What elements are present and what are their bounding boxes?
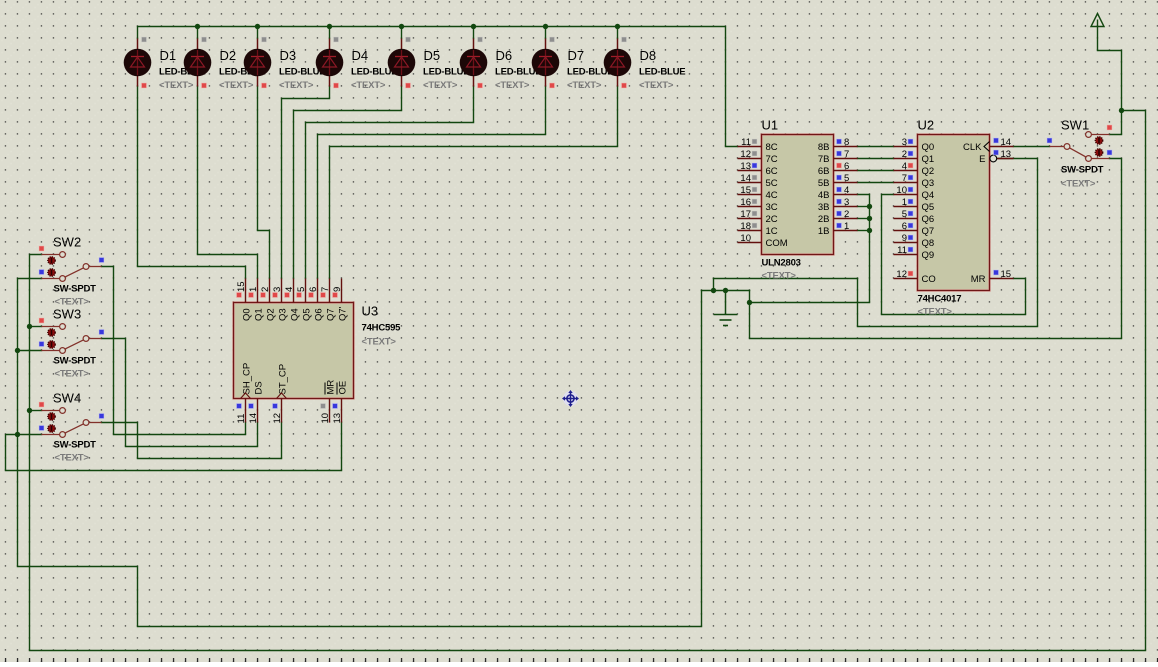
SW4 contacts bbox=[60, 408, 66, 414]
svg-text:Q9: Q9 bbox=[922, 250, 935, 261]
svg-text:SW-SPDT: SW-SPDT bbox=[54, 356, 97, 367]
U3 pin 15 (Q0) top bbox=[236, 279, 252, 322]
svg-text:D6: D6 bbox=[496, 48, 513, 63]
wire: U1 4B down ground bus bbox=[750, 195, 870, 303]
svg-text:LED-BLUE: LED-BLUE bbox=[639, 67, 685, 78]
svg-text:10: 10 bbox=[896, 185, 907, 196]
svg-text:D2: D2 bbox=[220, 48, 237, 63]
wire: D7 to U3 Q6 (pin 6) bbox=[318, 87, 546, 279]
pin marker D6 cathode bbox=[478, 83, 483, 88]
junction: SW3 throw A bbox=[27, 324, 32, 329]
U3 pin 3 (Q3) top bbox=[272, 279, 288, 322]
svg-text:<TEXT>: <TEXT> bbox=[219, 80, 254, 91]
wire: rail tap to D4 bbox=[329, 27, 331, 39]
pin marker D1 cathode bbox=[142, 83, 147, 88]
svg-text:ULN2803: ULN2803 bbox=[762, 258, 801, 269]
SW1 contacts bbox=[1064, 144, 1070, 150]
pin marker D6 anode bbox=[478, 37, 483, 42]
SW2 knobs bbox=[48, 257, 55, 264]
svg-text:1: 1 bbox=[844, 221, 849, 232]
junction: rail at D7 bbox=[543, 24, 548, 29]
svg-text:Q4: Q4 bbox=[289, 308, 300, 321]
LED D3 bbox=[244, 37, 326, 91]
junction: ground bus tap bbox=[747, 300, 752, 305]
SW3 lever bbox=[65, 340, 84, 349]
svg-text:Q5: Q5 bbox=[922, 202, 935, 213]
svg-text:D5: D5 bbox=[424, 48, 441, 63]
svg-text:17: 17 bbox=[740, 209, 751, 220]
U1 pin 5 (5B) bbox=[818, 173, 858, 189]
U1 pin 3 (3B) bbox=[818, 197, 858, 213]
svg-text:D7: D7 bbox=[568, 48, 585, 63]
svg-text:5: 5 bbox=[296, 287, 307, 292]
switch SW2 SW-SPDT bbox=[39, 235, 104, 308]
U1 pin 6 (6B) bbox=[818, 161, 858, 177]
SW1 lever bbox=[1070, 148, 1087, 157]
svg-text:<TEXT>: <TEXT> bbox=[362, 337, 397, 348]
svg-text:6C: 6C bbox=[766, 166, 778, 177]
svg-text:D3: D3 bbox=[280, 48, 297, 63]
U3 pin 10 (MR) bottom bbox=[320, 380, 337, 424]
wire: SW2 pole to U3 SH_CP (pin 11) bbox=[102, 267, 246, 435]
wire: SW4 throw A stub bbox=[30, 410, 42, 412]
svg-text:10: 10 bbox=[740, 233, 751, 244]
SW3 knobs bbox=[48, 329, 55, 336]
wire: U1 8B-Q0 to U2 bbox=[858, 146, 894, 148]
svg-text:MR: MR bbox=[326, 380, 337, 395]
svg-text:<TEXT>: <TEXT> bbox=[351, 80, 386, 91]
U2 pin 9 (Q8) bbox=[894, 233, 935, 249]
pin marker D4 cathode bbox=[334, 83, 339, 88]
junction: ground row left bbox=[711, 288, 716, 293]
svg-text:<TEXT>: <TEXT> bbox=[55, 453, 90, 464]
svg-text:Q1: Q1 bbox=[922, 154, 935, 165]
svg-text:3: 3 bbox=[844, 197, 849, 208]
wire: SW4 throw B stub bbox=[18, 434, 42, 436]
LED D2 bbox=[184, 37, 266, 91]
SW3 pin markers bbox=[39, 318, 44, 323]
svg-text:DS: DS bbox=[254, 381, 265, 394]
junction: SW4 throw B bbox=[15, 432, 20, 437]
svg-text:7B: 7B bbox=[818, 154, 830, 165]
wire: U1 1B to bus bbox=[858, 230, 870, 232]
U3 pin 1 (Q1) top bbox=[248, 279, 264, 322]
svg-text:CLK: CLK bbox=[963, 142, 982, 153]
U3 pin 11 (SH_CP) bottom bbox=[236, 363, 253, 424]
U2 pin 4 (Q2) bbox=[894, 161, 935, 177]
wire: U1 6B-Q2 to U2 bbox=[858, 170, 894, 172]
svg-text:5B: 5B bbox=[818, 178, 830, 189]
SW3 contacts bbox=[60, 324, 66, 330]
svg-text:E: E bbox=[979, 154, 985, 165]
junction: rail at D8 bbox=[615, 24, 620, 29]
SW2 contacts bbox=[60, 252, 66, 258]
U1 pin 15 (4C) bbox=[738, 185, 778, 201]
svg-text:4B: 4B bbox=[818, 190, 830, 201]
svg-text:SW-SPDT: SW-SPDT bbox=[1061, 165, 1104, 176]
svg-text:SW4: SW4 bbox=[53, 391, 81, 406]
junction: rail at D2 bbox=[195, 24, 200, 29]
svg-text:<TEXT>: <TEXT> bbox=[495, 80, 530, 91]
LED D4 bbox=[316, 37, 398, 91]
pin marker D5 anode bbox=[406, 37, 411, 42]
svg-text:U3: U3 bbox=[362, 304, 379, 319]
svg-text:<TEXT>: <TEXT> bbox=[279, 80, 314, 91]
junction: SW4 throw A bbox=[27, 408, 32, 413]
svg-text:SW2: SW2 bbox=[53, 235, 81, 250]
svg-text:14: 14 bbox=[740, 173, 751, 184]
wire: rail tap to D2 bbox=[197, 27, 199, 39]
junction: 2B bus bbox=[867, 216, 872, 221]
svg-text:11: 11 bbox=[897, 245, 907, 256]
svg-text:7C: 7C bbox=[766, 154, 778, 165]
svg-text:5: 5 bbox=[902, 209, 907, 220]
wire: U1 3B to bus bbox=[858, 206, 870, 208]
U1 pin 12 (7C) bbox=[738, 149, 778, 165]
pin marker D3 anode bbox=[262, 37, 267, 42]
svg-text:Q1: Q1 bbox=[253, 308, 264, 321]
svg-text:74HC595: 74HC595 bbox=[362, 323, 402, 334]
wire: VCC loop to SW2/3/4 throw A bbox=[30, 111, 1146, 651]
svg-text:4: 4 bbox=[844, 185, 849, 196]
svg-text:18: 18 bbox=[740, 221, 751, 232]
U3 pin 12 (ST_CP) bottom bbox=[272, 364, 289, 424]
svg-text:13: 13 bbox=[332, 413, 343, 424]
junction: 1B bus bbox=[867, 228, 872, 233]
svg-text:D1: D1 bbox=[160, 48, 177, 63]
svg-text:MR: MR bbox=[971, 274, 986, 285]
wire: U1 7B-Q1 to U2 bbox=[858, 158, 894, 160]
wire: ground drop bbox=[713, 279, 715, 291]
U2 pin 11 (Q9) bbox=[894, 245, 935, 261]
svg-text:2: 2 bbox=[844, 209, 849, 220]
svg-text:14: 14 bbox=[248, 413, 259, 424]
pin marker D2 anode bbox=[202, 37, 207, 42]
svg-text:<TEXT>: <TEXT> bbox=[567, 80, 602, 91]
svg-text:8B: 8B bbox=[818, 142, 830, 153]
svg-text:1C: 1C bbox=[766, 226, 778, 237]
svg-text:74HC4017: 74HC4017 bbox=[918, 294, 962, 305]
svg-text:11: 11 bbox=[741, 137, 751, 148]
switch SW1 SW-SPDT bbox=[1047, 118, 1112, 190]
svg-text:15: 15 bbox=[236, 281, 247, 292]
wire: ground to SW1 throw B bbox=[750, 159, 1122, 339]
wire: U1 5B-Q3 to U2 bbox=[858, 182, 894, 184]
U3 pin 2 (Q2) top bbox=[260, 279, 276, 322]
svg-text:<TEXT>: <TEXT> bbox=[762, 271, 797, 282]
svg-text:SW-SPDT: SW-SPDT bbox=[54, 284, 97, 295]
svg-text:U2: U2 bbox=[918, 118, 935, 133]
svg-text:11: 11 bbox=[236, 414, 247, 424]
svg-text:2B: 2B bbox=[818, 214, 830, 225]
IC U2 74HC4017 bbox=[894, 118, 1014, 318]
svg-text:12: 12 bbox=[740, 149, 751, 160]
wire: U1 2B to bus bbox=[858, 218, 870, 220]
svg-text:Q7': Q7' bbox=[337, 306, 348, 321]
wire: anode rail from D1 to U1 pin 8C bbox=[138, 27, 738, 147]
U3 pin 7 (Q7) top bbox=[320, 279, 336, 322]
svg-text:8C: 8C bbox=[766, 142, 778, 153]
svg-text:SW-SPDT: SW-SPDT bbox=[54, 440, 97, 451]
svg-text:Q3: Q3 bbox=[922, 178, 935, 189]
junction: rail at D5 bbox=[399, 24, 404, 29]
wire: VCC to SW1 throw A bbox=[1110, 111, 1122, 135]
junction: 3B bus bbox=[867, 204, 872, 209]
svg-text:Q7: Q7 bbox=[922, 226, 935, 237]
pin marker D2 cathode bbox=[202, 83, 207, 88]
wire: SW2 throw B ground loop bbox=[18, 279, 702, 627]
pin marker D8 anode bbox=[622, 37, 627, 42]
U1 pin 11 (8C) bbox=[738, 137, 778, 153]
U2 pin 6 (Q7) bbox=[894, 221, 935, 237]
U3 pin 5 (Q5) top bbox=[296, 279, 312, 322]
svg-text:3C: 3C bbox=[766, 202, 778, 213]
svg-text:5: 5 bbox=[844, 173, 849, 184]
U2 pin 10 (Q4) bbox=[894, 185, 935, 201]
sheet bottom tick row bbox=[5, 658, 1158, 663]
svg-text:5C: 5C bbox=[766, 178, 778, 189]
svg-text:6: 6 bbox=[844, 161, 849, 172]
svg-text:14: 14 bbox=[1001, 137, 1012, 148]
SW4 pin markers bbox=[39, 402, 44, 407]
svg-text:2C: 2C bbox=[766, 214, 778, 225]
svg-text:10: 10 bbox=[320, 413, 331, 424]
U2 pin 12 (CO) bbox=[894, 269, 936, 285]
wire: U2 Q4 to U2 MR (pin 15) bbox=[882, 195, 1026, 315]
U2 pin 15 (MR) bbox=[971, 269, 1014, 285]
svg-text:12: 12 bbox=[272, 413, 283, 424]
svg-text:7: 7 bbox=[902, 173, 907, 184]
svg-text:16: 16 bbox=[740, 197, 751, 208]
wire: rail tap to D5 bbox=[401, 27, 403, 39]
svg-text:Q7: Q7 bbox=[325, 308, 336, 321]
svg-text:6: 6 bbox=[308, 287, 319, 292]
SW1 knobs bbox=[1095, 137, 1102, 144]
svg-text:3B: 3B bbox=[818, 202, 830, 213]
SW1 pin markers bbox=[1107, 125, 1112, 130]
svg-text:<TEXT>: <TEXT> bbox=[159, 80, 194, 91]
wire: SW3 throw A stub bbox=[30, 326, 42, 328]
SW2 pin markers bbox=[39, 246, 44, 251]
svg-text:Q2: Q2 bbox=[265, 308, 276, 321]
junction: rail at D6 bbox=[471, 24, 476, 29]
svg-text:Q6: Q6 bbox=[922, 214, 935, 225]
U1 pin 16 (3C) bbox=[738, 197, 778, 213]
svg-text:3: 3 bbox=[902, 137, 907, 148]
pin marker D3 cathode bbox=[262, 83, 267, 88]
svg-text:D4: D4 bbox=[352, 48, 369, 63]
U1 pin 7 (7B) bbox=[818, 149, 858, 165]
LED D8 bbox=[604, 37, 686, 91]
svg-text:SH_CP: SH_CP bbox=[242, 363, 253, 395]
svg-text:2: 2 bbox=[902, 149, 907, 160]
wire: U2 CLK to SW1 pole bbox=[1014, 146, 1050, 148]
svg-text:Q4: Q4 bbox=[922, 190, 935, 201]
wire: SW3 pole to U3 DS (pin 14) bbox=[102, 339, 258, 447]
svg-text:<TEXT>: <TEXT> bbox=[639, 80, 674, 91]
LED D6 bbox=[460, 37, 542, 91]
svg-text:<TEXT>: <TEXT> bbox=[423, 80, 458, 91]
junction: VCC split bbox=[1119, 108, 1124, 113]
svg-text:<TEXT>: <TEXT> bbox=[918, 307, 953, 318]
wire: SW3 throw B stub bbox=[18, 350, 42, 352]
svg-text:7: 7 bbox=[844, 149, 849, 160]
ground symbol bbox=[714, 291, 738, 326]
U2 pin 3 (Q0) bbox=[894, 137, 935, 153]
wire: D6 to U3 Q5 (pin 5) bbox=[306, 87, 474, 279]
wire: D5 to U3 Q4 (pin 4) bbox=[294, 87, 402, 279]
pin marker D7 anode bbox=[550, 37, 555, 42]
svg-text:CO: CO bbox=[922, 274, 936, 285]
U1 pin 13 (6C) bbox=[738, 161, 778, 177]
wire: U3 OE to ground branch bbox=[6, 423, 342, 471]
svg-text:1B: 1B bbox=[818, 226, 830, 237]
svg-text:1: 1 bbox=[248, 287, 259, 292]
U3 pin 13 (OE) bottom bbox=[332, 381, 349, 424]
svg-text:D8: D8 bbox=[640, 48, 657, 63]
U3 pin 14 (DS) bottom bbox=[248, 381, 265, 423]
svg-text:13: 13 bbox=[1001, 149, 1012, 160]
svg-text:Q0: Q0 bbox=[241, 308, 252, 321]
svg-text:12: 12 bbox=[896, 269, 907, 280]
svg-text:<TEXT>: <TEXT> bbox=[1061, 179, 1096, 190]
svg-text:2: 2 bbox=[260, 287, 271, 292]
LED D1 bbox=[124, 37, 206, 91]
svg-text:1: 1 bbox=[902, 197, 907, 208]
wire: power arrow feed bbox=[1098, 27, 1122, 111]
wire: rail tap to D7 bbox=[545, 27, 547, 39]
wire: D8 to U3 Q7 (pin 7) bbox=[330, 87, 618, 279]
power symbol (VCC arrow) bbox=[1091, 14, 1104, 27]
wire: rail tap to D3 bbox=[257, 27, 259, 39]
LED D7 bbox=[532, 37, 614, 91]
svg-text:15: 15 bbox=[740, 185, 751, 196]
svg-text:6B: 6B bbox=[818, 166, 830, 177]
IC U1 ULN2803 bbox=[738, 118, 858, 282]
switch SW3 SW-SPDT bbox=[39, 307, 104, 380]
U2 pin 1 (Q5) bbox=[894, 197, 935, 213]
U1 pin 14 (5C) bbox=[738, 173, 778, 189]
switch SW4 SW-SPDT bbox=[39, 391, 104, 464]
pin marker D1 anode bbox=[142, 37, 147, 42]
U2 pin 14 (CLK) bbox=[963, 137, 1013, 153]
pin marker D8 cathode bbox=[622, 83, 627, 88]
pin marker D7 cathode bbox=[550, 83, 555, 88]
svg-text:COM: COM bbox=[766, 238, 788, 249]
svg-text:Q5: Q5 bbox=[301, 308, 312, 321]
svg-text:9: 9 bbox=[332, 287, 343, 292]
svg-text:ST_CP: ST_CP bbox=[278, 364, 289, 395]
U2 pin 13 (E, active-low enable bubble) bbox=[979, 149, 1013, 165]
junction: rail at D4 bbox=[327, 24, 332, 29]
U2 pin 2 (Q1) bbox=[894, 149, 935, 165]
junction: rail at D3 bbox=[255, 24, 260, 29]
svg-text:9: 9 bbox=[902, 233, 907, 244]
svg-text:3: 3 bbox=[272, 287, 283, 292]
svg-text:SW1: SW1 bbox=[1061, 118, 1089, 133]
svg-text:13: 13 bbox=[740, 161, 751, 172]
svg-text:4: 4 bbox=[902, 161, 907, 172]
svg-text:Q6: Q6 bbox=[313, 308, 324, 321]
SW4 knobs bbox=[48, 413, 55, 420]
wire: D3 to U3 Q2 (pin 2) bbox=[258, 87, 270, 279]
wire: D1 to U3 Q0 (pin 15) bbox=[138, 87, 246, 279]
svg-text:15: 15 bbox=[1001, 269, 1012, 280]
svg-text:8: 8 bbox=[844, 137, 849, 148]
U1 pin 17 (2C) bbox=[738, 209, 778, 225]
svg-text:Q0: Q0 bbox=[922, 142, 935, 153]
wire: U2 E pin to ground bbox=[858, 159, 1038, 327]
LED D5 bbox=[388, 37, 470, 91]
U1 pin 18 (1C) bbox=[738, 221, 778, 237]
svg-text:4: 4 bbox=[284, 287, 295, 292]
junction: SW3 throw B bbox=[15, 348, 20, 353]
pin marker D4 anode bbox=[334, 37, 339, 42]
U3 pin 6 (Q6) top bbox=[308, 279, 324, 322]
wire: D4 to U3 Q3 (pin 3) bbox=[282, 87, 330, 279]
U3 pin 9 (Q7') top bbox=[332, 279, 348, 322]
U1 pin 1 (1B) bbox=[818, 221, 858, 237]
U1 pin 4 (4B) bbox=[818, 185, 858, 201]
pin marker D5 cathode bbox=[406, 83, 411, 88]
wire: ground rail upper bbox=[714, 278, 858, 280]
svg-text:Q2: Q2 bbox=[922, 166, 935, 177]
U2 pin 5 (Q6) bbox=[894, 209, 935, 225]
junction: ground symbol tap bbox=[723, 288, 728, 293]
SW4 lever bbox=[65, 424, 84, 433]
SW2 lever bbox=[65, 268, 84, 277]
wire: rail tap to D6 bbox=[473, 27, 475, 39]
U1 pin 10 (COM) bbox=[738, 233, 788, 249]
svg-text:<TEXT>: <TEXT> bbox=[55, 369, 90, 380]
svg-text:U1: U1 bbox=[762, 118, 779, 133]
svg-text:7: 7 bbox=[320, 287, 331, 292]
svg-text:Q3: Q3 bbox=[277, 308, 288, 321]
U3 pin 4 (Q4) top bbox=[284, 279, 300, 322]
U1 pin 8 (8B) bbox=[818, 137, 858, 153]
wire: SW4 pole to U3 ST_CP (pin 12) bbox=[102, 423, 282, 459]
svg-text:SW3: SW3 bbox=[53, 307, 81, 322]
wire: rail tap to D8 bbox=[617, 27, 619, 39]
IC U3 74HC595 bbox=[234, 279, 402, 424]
wire: ground row bbox=[702, 290, 750, 292]
wire: D2 to U3 Q1 (pin 1) bbox=[198, 87, 258, 279]
U1 pin 2 (2B) bbox=[818, 209, 858, 225]
svg-text:4C: 4C bbox=[766, 190, 778, 201]
svg-text:6: 6 bbox=[902, 221, 907, 232]
editor cursor crosshair bbox=[562, 390, 579, 407]
svg-text:Q8: Q8 bbox=[922, 238, 935, 249]
U2 pin 7 (Q3) bbox=[894, 173, 935, 189]
svg-text:OE: OE bbox=[338, 381, 349, 395]
